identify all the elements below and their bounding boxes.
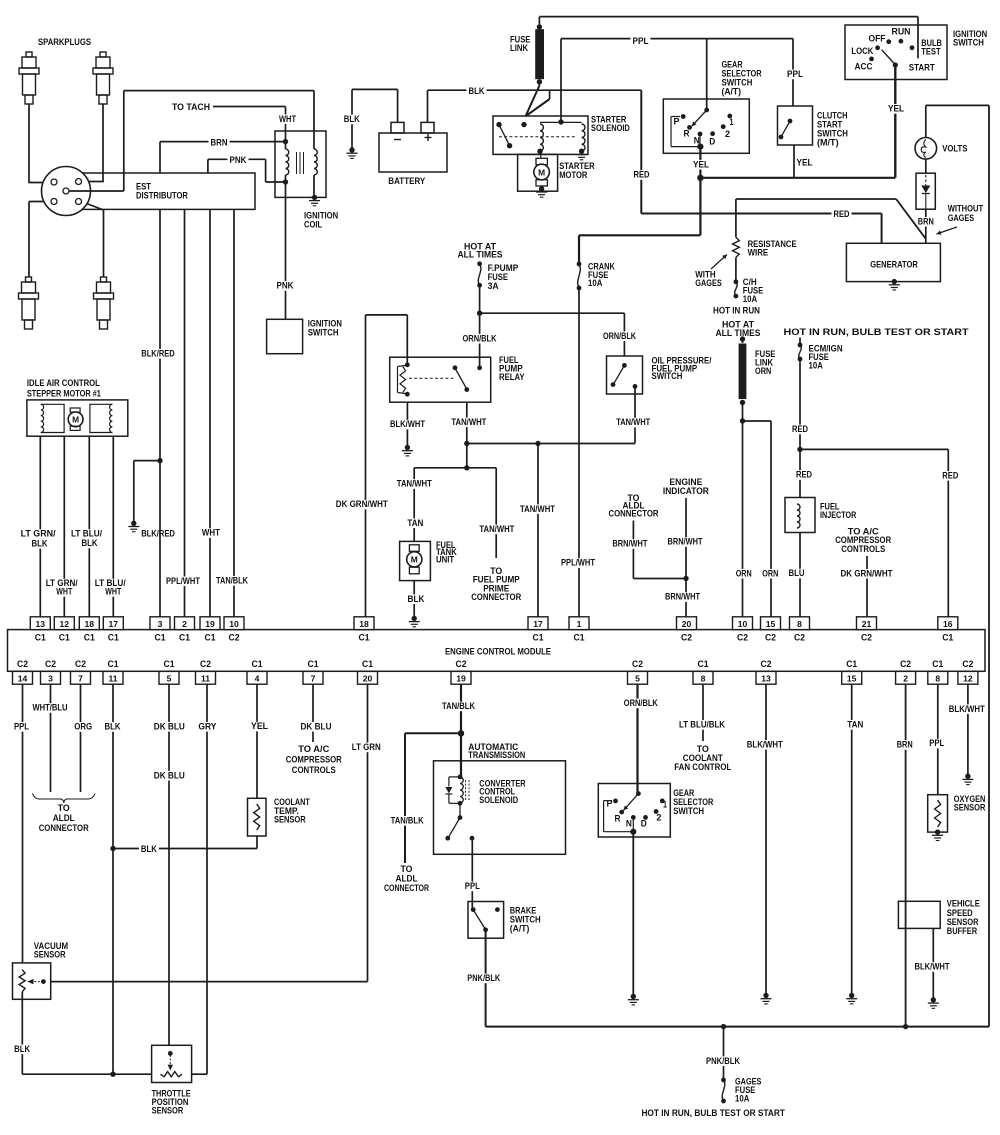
svg-text:SOLENOID: SOLENOID xyxy=(591,123,630,134)
svg-text:15: 15 xyxy=(847,673,857,683)
svg-text:TAN/BLK: TAN/BLK xyxy=(442,701,475,712)
RED wire to injector and pin 16 xyxy=(799,359,801,449)
wire distributor center to ignition coil xyxy=(69,190,124,192)
svg-text:DK BLU: DK BLU xyxy=(301,721,332,732)
svg-text:YEL: YEL xyxy=(251,721,268,732)
crank fuse xyxy=(577,262,582,267)
svg-text:15: 15 xyxy=(766,619,776,629)
YEL wire clutch to YEL bus xyxy=(793,145,795,178)
svg-text:TAN/BLK: TAN/BLK xyxy=(391,815,424,826)
ECM top pin 3 C1 xyxy=(150,617,170,630)
svg-text:3A: 3A xyxy=(488,281,499,292)
ECM top pin 19 C1 xyxy=(200,617,220,630)
svg-text:TAN/WHT: TAN/WHT xyxy=(616,417,650,428)
svg-text:10: 10 xyxy=(738,619,748,629)
svg-text:13: 13 xyxy=(36,619,46,629)
sparkplug 2 xyxy=(93,52,113,104)
ORN/BLK wire pin 5 to gear selector xyxy=(636,684,638,793)
svg-text:5: 5 xyxy=(167,673,172,683)
svg-text:GAGES: GAGES xyxy=(695,278,722,289)
svg-text:ENGINE CONTROL MODULE: ENGINE CONTROL MODULE xyxy=(445,646,551,657)
svg-text:ORN: ORN xyxy=(762,568,778,579)
svg-text:BLK/WHT: BLK/WHT xyxy=(390,419,425,430)
svg-text:MOTOR: MOTOR xyxy=(559,170,587,181)
svg-text:C1: C1 xyxy=(164,659,175,669)
svg-text:10A: 10A xyxy=(588,278,602,289)
YEL bus wire xyxy=(700,177,895,179)
svg-text:CONTROLS: CONTROLS xyxy=(292,765,336,776)
svg-text:RUN: RUN xyxy=(892,26,911,37)
engine control module strip xyxy=(8,630,986,672)
svg-text:PPL: PPL xyxy=(633,36,649,47)
svg-text:WHT: WHT xyxy=(279,114,296,125)
BRN wire diode to generator xyxy=(925,209,927,243)
svg-text:SOLENOID: SOLENOID xyxy=(479,795,518,806)
svg-text:SENSOR: SENSOR xyxy=(954,803,986,814)
svg-text:TO TACH: TO TACH xyxy=(172,102,210,113)
svg-text:HOT IN RUN, BULB TEST OR START: HOT IN RUN, BULB TEST OR START xyxy=(784,327,969,338)
svg-text:10A: 10A xyxy=(809,361,823,372)
svg-text:ORN/BLK: ORN/BLK xyxy=(624,698,658,709)
svg-text:PNK: PNK xyxy=(230,155,247,166)
svg-text:BLK: BLK xyxy=(469,86,485,97)
svg-text:C1: C1 xyxy=(942,633,953,643)
diode box xyxy=(916,173,935,209)
svg-text:18: 18 xyxy=(85,619,95,629)
svg-text:SWITCH: SWITCH xyxy=(652,371,683,382)
svg-text:3: 3 xyxy=(48,673,53,683)
svg-text:M: M xyxy=(538,167,545,177)
svg-text:P: P xyxy=(674,116,680,126)
label BLK xyxy=(342,115,362,125)
svg-text:OFF: OFF xyxy=(869,34,886,45)
svg-text:C2: C2 xyxy=(75,659,86,669)
svg-text:ALL TIMES: ALL TIMES xyxy=(716,328,762,339)
ECM top pin 21 C2 xyxy=(857,617,877,630)
svg-text:PPL: PPL xyxy=(14,722,29,733)
svg-text:TAN: TAN xyxy=(847,719,863,730)
arrow with gages xyxy=(711,255,727,270)
svg-text:16: 16 xyxy=(943,619,953,629)
svg-text:4: 4 xyxy=(255,673,260,683)
svg-text:1: 1 xyxy=(663,799,667,809)
svg-text:TAN/BLK: TAN/BLK xyxy=(216,575,248,586)
svg-text:BLK/WHT: BLK/WHT xyxy=(949,704,985,715)
svg-text:C2: C2 xyxy=(962,659,973,669)
svg-text:TAN: TAN xyxy=(407,518,423,529)
svg-text:(M/T): (M/T) xyxy=(817,138,839,149)
ignition switch box xyxy=(845,25,947,80)
svg-text:C2: C2 xyxy=(456,659,467,669)
brace to ALDL connector xyxy=(33,794,96,804)
svg-text:1: 1 xyxy=(730,117,734,127)
ground battery negative xyxy=(349,147,354,152)
svg-text:BLK/RED: BLK/RED xyxy=(141,528,175,539)
svg-text:19: 19 xyxy=(456,673,466,683)
TAN/BLK wire pin 19 xyxy=(460,684,462,733)
ECM top pin 10 C2 xyxy=(224,617,244,630)
BRN/WHT wire ALDL xyxy=(632,521,634,579)
svg-text:C1: C1 xyxy=(359,633,370,643)
svg-text:PPL/WHT: PPL/WHT xyxy=(166,576,200,587)
svg-text:C2: C2 xyxy=(765,633,776,643)
PPL/WHT wire EST to pin 2 xyxy=(184,209,186,616)
converter control solenoid xyxy=(458,775,463,780)
arrow without gages xyxy=(937,227,958,234)
svg-text:INJECTOR: INJECTOR xyxy=(820,510,856,521)
svg-text:DK BLU: DK BLU xyxy=(154,770,185,781)
svg-text:RED: RED xyxy=(834,209,850,220)
svg-text:C1: C1 xyxy=(698,659,709,669)
ECM top pin 13 C1 xyxy=(30,617,50,630)
BLK ground fuel tank xyxy=(413,581,415,619)
svg-text:10A: 10A xyxy=(743,294,757,305)
svg-text:BLK: BLK xyxy=(82,538,98,549)
svg-text:D: D xyxy=(709,136,715,146)
DK BLU wire pin 5 to TPS xyxy=(168,684,170,1045)
svg-text:LT GRN: LT GRN xyxy=(352,742,381,753)
ignition coil windings xyxy=(283,139,288,144)
svg-text:C2: C2 xyxy=(17,659,28,669)
svg-text:1: 1 xyxy=(577,619,582,629)
svg-text:21: 21 xyxy=(862,619,872,629)
fuel injector box xyxy=(785,498,815,533)
svg-text:BUFFER: BUFFER xyxy=(947,926,977,937)
automatic transmission box xyxy=(434,761,566,855)
volts gauge xyxy=(915,138,937,160)
distributor terminals xyxy=(51,179,57,185)
BLK/WHT relay ground xyxy=(406,402,408,447)
ECM top pin 12 C1 xyxy=(54,617,74,630)
battery ground wire xyxy=(351,89,353,150)
svg-text:2: 2 xyxy=(182,619,187,629)
svg-text:ORN/BLK: ORN/BLK xyxy=(603,331,636,342)
TAN/BLK wire EST to pin 10 xyxy=(233,209,235,616)
wire gear selector to ground xyxy=(632,832,634,997)
svg-text:2: 2 xyxy=(725,129,730,139)
ECM top pin 17 C1 xyxy=(103,617,123,630)
YEL wire ignition switch down xyxy=(894,65,896,178)
battery negative terminal xyxy=(391,122,404,133)
svg-text:YEL: YEL xyxy=(693,159,709,170)
svg-text:BLK: BLK xyxy=(344,114,360,125)
LT BLU/BLK wire pin 8 xyxy=(702,684,704,741)
throttle position sensor box xyxy=(152,1045,192,1082)
svg-text:CONTROLS: CONTROLS xyxy=(841,544,885,555)
svg-text:(A/T): (A/T) xyxy=(510,923,530,934)
wire sparkplug1 to distributor xyxy=(28,104,30,183)
C/H fuse xyxy=(734,279,739,284)
svg-text:GAGES: GAGES xyxy=(948,213,975,224)
svg-text:C2: C2 xyxy=(737,633,748,643)
svg-text:WIRE: WIRE xyxy=(748,248,769,259)
GRY wire pin 11 to TPS xyxy=(206,684,208,1074)
svg-text:C1: C1 xyxy=(59,633,70,643)
fuel pump relay box xyxy=(390,357,491,402)
svg-text:17: 17 xyxy=(533,619,543,629)
svg-text:IDLE AIR CONTROL: IDLE AIR CONTROL xyxy=(27,378,100,389)
svg-text:C1: C1 xyxy=(35,633,46,643)
svg-text:FAN CONTROL: FAN CONTROL xyxy=(674,762,731,773)
svg-text:RED: RED xyxy=(634,170,650,181)
resistance wire branch xyxy=(736,198,896,200)
svg-text:BLK: BLK xyxy=(14,1044,30,1055)
svg-text:LT BLU/BLK: LT BLU/BLK xyxy=(679,720,725,731)
starter solenoid box xyxy=(493,116,588,154)
svg-text:8: 8 xyxy=(935,673,940,683)
PPL wire pin 14 to vacuum sensor xyxy=(22,684,24,963)
svg-text:SWITCH: SWITCH xyxy=(673,806,704,817)
svg-text:TEST: TEST xyxy=(921,46,941,57)
svg-text:BRN/WHT: BRN/WHT xyxy=(612,539,647,550)
svg-text:ACC: ACC xyxy=(855,62,873,73)
svg-text:LOCK: LOCK xyxy=(851,46,873,57)
svg-text:N: N xyxy=(626,818,632,828)
svg-text:BRN/WHT: BRN/WHT xyxy=(668,537,703,548)
svg-text:(A/T): (A/T) xyxy=(722,87,742,98)
svg-text:ORN: ORN xyxy=(736,568,752,579)
ECM top pin 18 C1 xyxy=(79,617,99,630)
svg-text:SPARKPLUGS: SPARKPLUGS xyxy=(38,37,91,48)
BRN/WHT wire to pin 20 xyxy=(685,579,687,617)
svg-text:C2: C2 xyxy=(794,633,805,643)
svg-text:17: 17 xyxy=(109,619,119,629)
svg-text:DK GRN/WHT: DK GRN/WHT xyxy=(336,499,388,510)
PPL wire xyxy=(561,38,793,40)
TAN/WHT wire to fuel pump prime connector xyxy=(495,468,497,558)
svg-text:C1: C1 xyxy=(308,659,319,669)
TAN/WHT wire to pin 17 xyxy=(537,444,539,617)
svg-text:BLK: BLK xyxy=(408,594,425,605)
BLK wire vacuum sensor to TPS xyxy=(21,992,23,1074)
svg-text:PNK/BLK: PNK/BLK xyxy=(467,973,500,984)
sparkplug 3 xyxy=(19,277,39,329)
idle air control stepper motor box xyxy=(27,400,128,436)
svg-text:C2: C2 xyxy=(632,659,643,669)
svg-text:SENSOR: SENSOR xyxy=(34,950,66,961)
svg-text:2: 2 xyxy=(656,812,661,822)
BRN wire through VSS box xyxy=(905,901,907,928)
ECM top pin 2 C1 xyxy=(175,617,195,630)
svg-text:20: 20 xyxy=(363,673,373,683)
svg-text:LINK: LINK xyxy=(510,43,528,54)
svg-text:SENSOR: SENSOR xyxy=(274,815,306,826)
svg-text:SENSOR: SENSOR xyxy=(152,1106,184,1117)
BLU wire injector to pin 8 xyxy=(799,533,801,617)
svg-text:8: 8 xyxy=(797,619,802,629)
clutch start switch box xyxy=(778,106,813,145)
svg-text:RELAY: RELAY xyxy=(499,372,525,383)
svg-text:CONNECTOR: CONNECTOR xyxy=(39,823,89,834)
starter solenoid internals xyxy=(521,122,526,127)
wire volts to diode xyxy=(925,159,927,173)
svg-text:10A: 10A xyxy=(735,1094,749,1105)
svg-text:11: 11 xyxy=(201,673,210,683)
gear selector switch A/T box xyxy=(663,99,749,153)
RED wire battery feed to generator xyxy=(640,90,642,213)
svg-text:START: START xyxy=(909,62,935,73)
svg-text:PNK: PNK xyxy=(277,281,294,292)
svg-text:BLK/RED: BLK/RED xyxy=(141,348,175,359)
wire battery to starter solenoid xyxy=(549,90,551,99)
svg-text:C1: C1 xyxy=(108,659,119,669)
wire PPL to gear selector xyxy=(706,39,708,110)
label PPL xyxy=(631,36,651,46)
PNK wire to coil xyxy=(208,158,266,160)
EST distributor box xyxy=(80,173,255,209)
svg-text:BATTERY: BATTERY xyxy=(388,176,425,187)
svg-text:TAN/WHT: TAN/WHT xyxy=(397,479,432,490)
PPL wire solenoid to brake switch xyxy=(471,838,473,909)
svg-text:C1: C1 xyxy=(932,659,943,669)
svg-text:CONNECTOR: CONNECTOR xyxy=(609,508,659,519)
wire fuse link to ignition switch xyxy=(539,16,918,18)
IAC windings xyxy=(41,404,64,432)
svg-text:8: 8 xyxy=(701,673,706,683)
svg-text:C1: C1 xyxy=(205,633,216,643)
svg-text:12: 12 xyxy=(60,619,70,629)
resistance wire zigzag xyxy=(733,237,740,257)
svg-text:M: M xyxy=(411,555,418,565)
ignition coil ground xyxy=(312,195,317,200)
svg-text:C2: C2 xyxy=(681,633,692,643)
svg-text:14: 14 xyxy=(18,673,28,683)
svg-text:R: R xyxy=(615,814,621,824)
relay coil xyxy=(405,362,410,367)
TAN/WHT wire oil switch down xyxy=(634,386,636,443)
svg-text:BLU: BLU xyxy=(789,568,805,579)
svg-text:11: 11 xyxy=(108,673,117,683)
IAC motor xyxy=(70,408,80,412)
svg-text:WHT: WHT xyxy=(202,528,220,539)
label WHT xyxy=(277,114,298,124)
svg-text:SWITCH: SWITCH xyxy=(953,38,984,49)
svg-text:BRN: BRN xyxy=(211,137,228,148)
ORN/BLK wire to relay xyxy=(479,313,481,368)
svg-text:19: 19 xyxy=(205,619,215,629)
generator box xyxy=(846,243,940,281)
PPL/WHT wire to ECM pin 1 xyxy=(578,288,580,617)
fuse link ORN xyxy=(742,339,744,344)
svg-text:DK GRN/WHT: DK GRN/WHT xyxy=(841,568,893,579)
svg-text:DK BLU: DK BLU xyxy=(154,721,185,732)
ECM top pin 1 C1 xyxy=(569,617,589,630)
svg-text:C1: C1 xyxy=(155,633,166,643)
vehicle speed sensor buffer box xyxy=(898,901,940,928)
svg-text:2: 2 xyxy=(903,673,908,683)
gear selector switch box (bottom) xyxy=(598,784,670,838)
svg-text:13: 13 xyxy=(761,673,771,683)
svg-text:CONNECTOR: CONNECTOR xyxy=(384,883,429,894)
svg-text:TO A/C: TO A/C xyxy=(298,744,329,755)
svg-text:WHT/BLU: WHT/BLU xyxy=(33,703,68,714)
svg-text:7: 7 xyxy=(78,673,83,683)
svg-text:YEL: YEL xyxy=(797,157,813,168)
gear selector contacts xyxy=(704,108,709,113)
plus sign xyxy=(425,137,432,139)
ORN wires to pins 10,15 xyxy=(743,420,772,422)
svg-text:PPL: PPL xyxy=(787,69,803,80)
svg-text:COIL: COIL xyxy=(304,219,322,230)
svg-text:GRY: GRY xyxy=(198,721,217,732)
WHT/BLU wire pin 3 xyxy=(50,684,52,792)
brake switch box xyxy=(468,902,504,939)
svg-text:PPL: PPL xyxy=(929,738,944,749)
YEL wire pin 4 to coolant temp sensor xyxy=(256,684,258,798)
svg-text:WHT: WHT xyxy=(105,587,121,598)
svg-text:C1: C1 xyxy=(108,633,119,643)
svg-text:INDICATOR: INDICATOR xyxy=(663,486,709,497)
svg-text:TRANSMISSION: TRANSMISSION xyxy=(468,750,525,761)
bottom bus wire xyxy=(486,1026,989,1028)
svg-text:7: 7 xyxy=(311,673,316,683)
svg-text:C1: C1 xyxy=(84,633,95,643)
svg-text:C2: C2 xyxy=(861,633,872,643)
svg-text:18: 18 xyxy=(359,619,369,629)
BRN wire to coil xyxy=(160,141,286,143)
wire distributor to sparkplug3 xyxy=(29,201,51,203)
LT GRN wire pin 20 to vacuum sensor xyxy=(367,684,369,981)
fuse link xyxy=(538,17,540,27)
right rail wire xyxy=(925,105,927,137)
sparkplug 4 xyxy=(94,277,114,329)
svg-text:M: M xyxy=(72,415,79,425)
label PNK xyxy=(228,156,249,166)
battery box xyxy=(379,133,447,172)
BLK/RED wire EST to pin 3 xyxy=(159,209,161,616)
vacuum sensor box xyxy=(13,963,51,999)
svg-text:RED: RED xyxy=(796,470,812,481)
svg-text:TAN/WHT: TAN/WHT xyxy=(479,524,514,535)
svg-text:C1: C1 xyxy=(362,659,373,669)
svg-text:PNK/BLK: PNK/BLK xyxy=(706,1056,740,1067)
BLK/WHT wire pin 13 to ground xyxy=(765,684,767,995)
coolant temp sensor box xyxy=(248,798,267,836)
label BRN xyxy=(209,138,230,148)
svg-text:ALL TIMES: ALL TIMES xyxy=(458,250,504,261)
svg-text:10: 10 xyxy=(229,619,239,629)
svg-text:ORG: ORG xyxy=(74,722,92,733)
svg-text:BLK: BLK xyxy=(141,844,157,855)
IAC wires to pins 13,12,18,17 xyxy=(39,436,41,617)
svg-text:C2: C2 xyxy=(761,659,772,669)
BLK/WHT wire pin 12 to ground xyxy=(967,684,969,776)
svg-text:BLK: BLK xyxy=(32,539,48,550)
svg-text:WHT: WHT xyxy=(56,587,72,598)
ECM top pin 17 C1 xyxy=(528,617,548,630)
distributor cap circle xyxy=(42,167,91,216)
svg-text:ORN: ORN xyxy=(755,366,771,377)
ignition coil box xyxy=(275,131,326,197)
svg-text:R: R xyxy=(684,129,690,139)
label BLK xyxy=(467,87,487,97)
BLK wire to coolant temp sensor xyxy=(113,848,257,850)
gages fuse xyxy=(721,1078,726,1083)
svg-text:C2: C2 xyxy=(200,659,211,669)
ECM top pin 10 C2 xyxy=(733,617,753,630)
svg-text:DISTRIBUTOR: DISTRIBUTOR xyxy=(136,190,188,201)
svg-text:SWITCH: SWITCH xyxy=(308,327,339,338)
BLK wire pin 11 xyxy=(112,684,114,1074)
ECM top pin 18 C1 xyxy=(354,617,374,630)
ECM top pin 20 C2 xyxy=(677,617,697,630)
oil pressure fuel pump switch box xyxy=(607,356,643,394)
relay contacts xyxy=(453,365,458,370)
svg-text:HOT IN RUN, BULB TEST OR START: HOT IN RUN, BULB TEST OR START xyxy=(641,1108,785,1119)
ECM top pin 16 C1 xyxy=(938,617,958,630)
BRN/WHT wire engine indicator xyxy=(685,498,687,579)
svg-text:D: D xyxy=(641,818,647,828)
